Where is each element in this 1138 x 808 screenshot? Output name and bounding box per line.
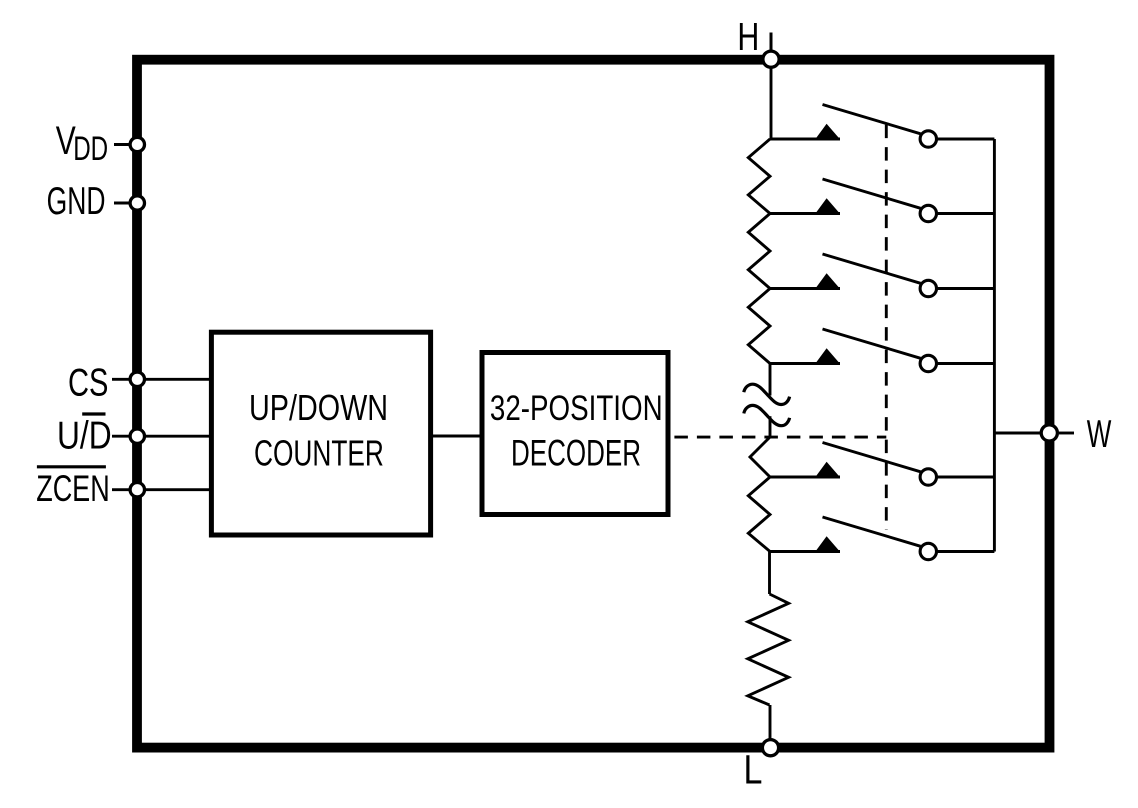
dashed switch control bus	[885, 125, 888, 530]
switch S5	[770, 443, 994, 486]
break squiggle upper	[744, 384, 790, 404]
switch S1	[770, 105, 994, 148]
pin circle GND	[130, 196, 144, 210]
wiper bus vertical	[993, 139, 996, 552]
switch S2	[770, 179, 994, 222]
pin tick VDD	[114, 143, 137, 146]
wire H to ladder top	[770, 59, 773, 139]
svg-text:DECODER: DECODER	[511, 432, 641, 474]
svg-text:H: H	[737, 17, 759, 59]
wire below tap 6	[768, 552, 771, 595]
pin circle VDD	[130, 137, 144, 151]
terminal tick W	[1059, 432, 1074, 435]
label U/D with bar over D	[57, 414, 112, 457]
resistor ladder segment R3	[748, 289, 770, 364]
svg-text:ZCEN: ZCEN	[36, 468, 109, 509]
resistor ladder segment R5	[748, 477, 770, 552]
svg-text:COUNTER: COUNTER	[254, 432, 384, 473]
terminal circle L	[762, 740, 778, 756]
switch S3	[770, 254, 994, 297]
terminal circle H	[763, 51, 779, 67]
wire above dashed junction	[769, 416, 772, 437]
terminal circle W	[1041, 425, 1057, 441]
wire bus to W	[994, 432, 1049, 435]
wire RB to L	[769, 705, 772, 748]
block up/down counter	[211, 332, 430, 535]
wire counter to decoder	[431, 435, 482, 438]
label VDD	[56, 119, 108, 168]
resistor ladder segment R1	[748, 139, 770, 214]
svg-text:DD: DD	[73, 130, 108, 168]
svg-text:L: L	[744, 747, 763, 792]
resistor ladder segment R2	[748, 214, 770, 289]
pin circle U/D	[130, 429, 144, 443]
pin circle CS	[130, 372, 144, 386]
resistor ladder segment R4 lower half	[750, 437, 770, 477]
wire CS pin to counter	[112, 378, 211, 381]
wire U/D pin to counter	[112, 435, 211, 438]
svg-text:W: W	[1087, 412, 1112, 455]
switch S6	[770, 517, 994, 560]
break squiggle lower	[744, 405, 790, 425]
terminal stub H	[770, 33, 773, 60]
svg-text:GND: GND	[47, 180, 106, 223]
label ZCEN with overline	[36, 467, 109, 509]
svg-text:32-POSITION: 32-POSITION	[490, 388, 663, 428]
dashed decoder output line	[674, 436, 886, 439]
switch S4	[770, 329, 994, 372]
pin circle ZCEN	[130, 483, 144, 497]
IC outline border	[137, 60, 1050, 748]
wire below tap 4	[769, 364, 772, 396]
svg-text:U/D: U/D	[57, 415, 112, 458]
resistor RB bottom	[748, 594, 789, 705]
svg-text:CS: CS	[68, 362, 108, 405]
block 32-position decoder	[482, 353, 668, 515]
svg-text:UP/DOWN: UP/DOWN	[249, 388, 388, 428]
pin tick GND	[114, 202, 137, 205]
wire ZCEN pin to counter	[112, 488, 211, 491]
